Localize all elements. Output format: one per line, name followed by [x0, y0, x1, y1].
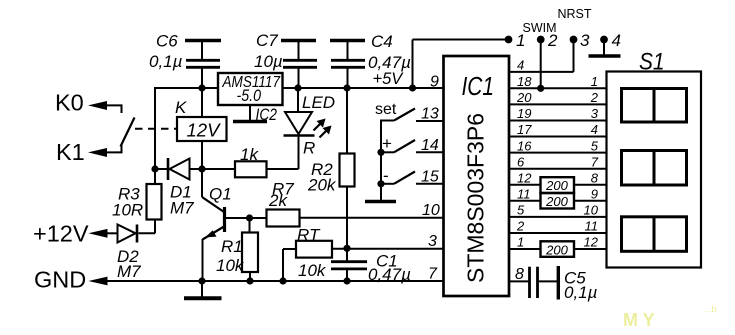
- wire IC1 pin 18 to S1 pin 1: [509, 87, 607, 89]
- svg-text:16: 16: [517, 138, 532, 153]
- programming header pin 3 NRST: [570, 36, 578, 72]
- resistor R1: [242, 218, 258, 281]
- display S1 outline: [607, 72, 702, 268]
- svg-text:Q1: Q1: [209, 185, 232, 204]
- svg-text:3: 3: [580, 31, 590, 50]
- ground symbol below buttons: [365, 200, 396, 203]
- capacitor C4: [330, 41, 365, 89]
- svg-text:4: 4: [517, 58, 524, 73]
- junction node A (D1 left / R3 top): [151, 165, 158, 172]
- svg-text:5: 5: [517, 203, 525, 218]
- junction buttons common at minus: [377, 180, 384, 187]
- junction LED top: [294, 84, 301, 91]
- svg-text:11: 11: [517, 187, 531, 202]
- resistor R3: [139, 169, 162, 233]
- svg-text:3: 3: [591, 106, 599, 121]
- svg-text:-5.0: -5.0: [237, 87, 262, 105]
- resistor R2: [340, 88, 355, 261]
- diode D2: [112, 225, 137, 243]
- svg-text:GND: GND: [34, 267, 86, 293]
- ground bar at C5: [557, 266, 560, 300]
- resistor 200 (pin 1 to S1 pin 12): [509, 241, 607, 256]
- svg-text:10k: 10k: [298, 261, 327, 280]
- svg-text:set: set: [375, 101, 397, 118]
- wire IC1 pin 4 to NRST: [509, 71, 574, 73]
- svg-text:...b: ...b: [704, 304, 717, 314]
- svg-text:0,1µ: 0,1µ: [149, 52, 183, 71]
- connector GND: [88, 277, 107, 286]
- svg-text:1k: 1k: [240, 145, 259, 164]
- capacitor C1: [331, 262, 367, 281]
- wire top rail to AMS1117 input: [154, 87, 218, 89]
- resistor 200 (pin 11 to S1 pin 9): [509, 193, 607, 209]
- display S1 digit 1: [622, 89, 687, 123]
- junction GND at C1 bottom: [343, 277, 350, 284]
- svg-text:3: 3: [428, 233, 437, 250]
- pushbutton plus (pin 14): [381, 140, 444, 152]
- svg-text:200: 200: [545, 178, 568, 193]
- svg-text:20: 20: [516, 90, 532, 105]
- thermistor RT: [283, 241, 444, 281]
- svg-text:0,1µ: 0,1µ: [564, 283, 598, 302]
- svg-text:2: 2: [547, 31, 558, 50]
- svg-text:10k: 10k: [216, 256, 245, 275]
- svg-text:1: 1: [517, 235, 524, 250]
- MCU IC1 STM8S003F3P6: [444, 56, 510, 296]
- svg-text:20k: 20k: [307, 176, 337, 195]
- pushbutton minus (pin 15): [381, 172, 444, 184]
- svg-text:10: 10: [584, 203, 599, 218]
- svg-text:NRST: NRST: [558, 7, 592, 21]
- svg-text:200: 200: [545, 194, 568, 209]
- wire +5V rail: [283, 87, 444, 89]
- svg-text:13: 13: [421, 106, 439, 123]
- wire buttons common: [380, 121, 382, 201]
- capacitor C7: [281, 41, 317, 89]
- junction at C6 / relay top: [198, 84, 205, 91]
- svg-text:+12V: +12V: [33, 221, 89, 247]
- svg-text:1: 1: [591, 74, 598, 89]
- capacitor C5 (pin 8): [509, 267, 557, 298]
- junction node coil bottom / Q1 collector: [198, 165, 205, 172]
- svg-text:2k: 2k: [268, 191, 288, 210]
- junction Q1 base / R1 top: [246, 214, 253, 221]
- svg-text:4: 4: [591, 122, 598, 137]
- svg-text:12: 12: [584, 235, 599, 250]
- svg-text:-: -: [383, 166, 389, 185]
- wire IC1 pin 6 to S1 pin 7: [509, 168, 607, 170]
- svg-text:R1: R1: [221, 237, 243, 256]
- junction SWIM on pin 18 wire: [537, 85, 544, 92]
- svg-text:STM8S003F3P6: STM8S003F3P6: [463, 113, 489, 283]
- wire IC1 pin 2 to S1 pin 11: [509, 232, 607, 234]
- transistor Q1: [202, 169, 267, 281]
- wire +12V vertical bus x=155: [154, 87, 156, 169]
- svg-text:2: 2: [516, 219, 525, 234]
- svg-text:IC1: IC1: [462, 71, 495, 101]
- resistor 1k (base of LED chain): [235, 161, 299, 177]
- connector K1: [88, 145, 122, 157]
- svg-text:11: 11: [585, 219, 599, 234]
- junction RT / C1 / pin3: [343, 245, 350, 252]
- junction R2 top: [343, 84, 350, 91]
- svg-text:10µ: 10µ: [254, 52, 283, 71]
- connector K0: [88, 101, 122, 113]
- svg-text:17: 17: [517, 122, 532, 137]
- display S1 digit 2: [622, 151, 687, 186]
- svg-text:C4: C4: [371, 32, 393, 51]
- voltage regulator IC2 AMS1117-5.0: [218, 73, 283, 105]
- svg-text:200: 200: [545, 242, 568, 257]
- ground symbol below rail: [184, 281, 222, 298]
- svg-text:6: 6: [517, 154, 525, 169]
- junction GND at Q1 emitter: [198, 277, 205, 284]
- junction +5V to programming pin 1: [409, 84, 416, 91]
- LED emission arrows: [314, 119, 332, 138]
- svg-text:8: 8: [515, 266, 524, 283]
- svg-text:12: 12: [517, 170, 532, 185]
- svg-text:C6: C6: [156, 32, 178, 51]
- svg-text:10: 10: [422, 202, 440, 219]
- ground symbol below IC2: [233, 105, 267, 122]
- wire IC1 pin 17 to S1 pin 4: [509, 136, 607, 138]
- svg-text:K1: K1: [56, 139, 85, 165]
- svg-text:2: 2: [590, 90, 599, 105]
- svg-text:+: +: [382, 134, 392, 153]
- wire IC1 pin 16 to S1 pin 5: [509, 152, 607, 154]
- junction buttons common at plus: [377, 149, 384, 156]
- svg-text:+5V: +5V: [373, 70, 405, 88]
- svg-text:C7: C7: [256, 31, 278, 50]
- svg-text:4: 4: [612, 31, 621, 50]
- programming header pin 1 (+5V): [413, 36, 513, 88]
- switch K contact lever: [121, 118, 135, 147]
- svg-text:19: 19: [517, 106, 531, 121]
- svg-text:15: 15: [421, 168, 439, 185]
- programming header pin 4 GND: [589, 36, 621, 56]
- svg-text:0,47µ: 0,47µ: [368, 265, 411, 284]
- svg-text:18: 18: [517, 74, 532, 89]
- programming header pin 2 SWIM: [537, 36, 545, 89]
- pushbutton set (pin 13): [381, 109, 444, 131]
- svg-text:S1: S1: [639, 49, 665, 76]
- diode D1 (flyback): [155, 158, 235, 180]
- wire IC1 pin 19 to S1 pin 3: [509, 120, 607, 122]
- svg-text:7: 7: [591, 154, 599, 169]
- svg-text:R: R: [303, 139, 315, 158]
- wire IC1 pin 20 to S1 pin 2: [509, 103, 607, 105]
- svg-text:IC2: IC2: [256, 106, 278, 124]
- svg-text:14: 14: [421, 137, 439, 154]
- svg-text:K: K: [175, 98, 187, 117]
- svg-text:LED: LED: [302, 93, 335, 112]
- svg-text:RT: RT: [297, 226, 321, 245]
- svg-text:M7: M7: [117, 262, 141, 281]
- resistor 200 (pin 12 to S1 pin 8): [509, 177, 607, 193]
- resistor R7: [267, 210, 444, 227]
- svg-text:5: 5: [591, 138, 599, 153]
- junction GND at R1 bottom: [246, 277, 253, 284]
- junction GND at RT branch: [279, 277, 286, 284]
- svg-text:9: 9: [591, 187, 598, 202]
- wire GND rail: [104, 280, 444, 282]
- svg-text:8: 8: [591, 170, 599, 185]
- svg-text:K0: K0: [55, 90, 84, 116]
- connector +12V: [88, 229, 107, 238]
- svg-text:10R: 10R: [112, 201, 143, 220]
- svg-text:9: 9: [430, 74, 439, 91]
- capacitor C6: [185, 41, 221, 89]
- svg-text:M7: M7: [170, 199, 194, 218]
- svg-text:7: 7: [428, 266, 438, 283]
- svg-text:12V: 12V: [187, 120, 222, 141]
- svg-text:1: 1: [516, 31, 525, 50]
- relay K coil 12V: [177, 88, 227, 169]
- relay K actuation dashed link: [135, 128, 177, 130]
- display S1 digit 3: [622, 217, 687, 252]
- svg-text:M Y: M Y: [623, 310, 655, 330]
- LED: [284, 88, 315, 169]
- wire IC1 pin 5 to S1 pin 10: [509, 216, 607, 218]
